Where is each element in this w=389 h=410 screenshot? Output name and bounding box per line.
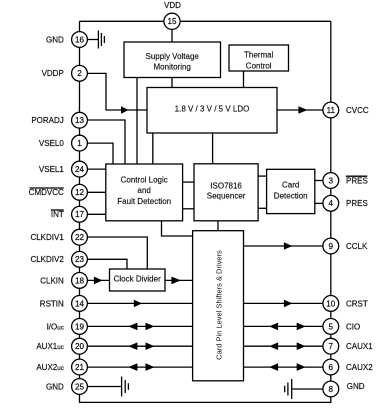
svg-text:GND: GND	[347, 382, 365, 391]
svg-text:9: 9	[329, 242, 334, 251]
svg-text:CVCC: CVCC	[346, 106, 369, 115]
svg-text:24: 24	[75, 165, 85, 174]
svg-text:VSEL0: VSEL0	[39, 139, 64, 148]
svg-text:Sequencer: Sequencer	[207, 192, 246, 201]
svg-text:12: 12	[75, 188, 85, 197]
svg-text:2: 2	[77, 69, 82, 78]
svg-text:PORADJ: PORADJ	[31, 116, 63, 125]
svg-text:VDDP: VDDP	[42, 69, 64, 78]
svg-text:Fault Detection: Fault Detection	[117, 197, 171, 206]
svg-text:CLKDIV1: CLKDIV1	[30, 233, 64, 242]
svg-text:7: 7	[329, 342, 334, 351]
svg-text:PRES: PRES	[346, 176, 368, 185]
svg-text:VSEL1: VSEL1	[39, 165, 64, 174]
svg-text:13: 13	[75, 116, 85, 125]
svg-text:8: 8	[329, 385, 334, 394]
svg-text:CIO: CIO	[346, 322, 360, 331]
svg-text:GND: GND	[46, 35, 64, 44]
svg-text:PRES: PRES	[346, 199, 368, 208]
svg-text:Supply Voltage: Supply Voltage	[146, 52, 200, 61]
svg-text:VDD: VDD	[164, 1, 181, 10]
svg-text:15: 15	[167, 17, 177, 26]
svg-text:Thermal: Thermal	[244, 50, 274, 59]
svg-text:22: 22	[75, 233, 85, 242]
svg-text:Clock Divider: Clock Divider	[114, 275, 161, 284]
svg-text:Monitoring: Monitoring	[154, 63, 191, 72]
svg-text:19: 19	[75, 322, 85, 331]
svg-text:Card: Card	[282, 181, 299, 190]
svg-text:CMDVCC: CMDVCC	[29, 188, 64, 197]
svg-text:ISO7816: ISO7816	[210, 182, 242, 191]
svg-text:RSTIN: RSTIN	[40, 299, 64, 308]
svg-text:CLKIN: CLKIN	[40, 276, 64, 285]
svg-text:GND: GND	[46, 382, 64, 391]
svg-text:Detection: Detection	[274, 192, 308, 201]
svg-text:4: 4	[329, 199, 334, 208]
svg-text:3: 3	[329, 176, 334, 185]
svg-text:CRST: CRST	[346, 299, 368, 308]
svg-text:6: 6	[329, 363, 334, 372]
svg-text:I/Ouc: I/Ouc	[47, 322, 64, 331]
svg-text:18: 18	[75, 276, 85, 285]
svg-text:Control Logic: Control Logic	[121, 175, 168, 184]
svg-text:14: 14	[75, 299, 85, 308]
svg-text:CAUX1: CAUX1	[346, 342, 373, 351]
svg-text:1: 1	[77, 139, 82, 148]
svg-text:1.8 V / 3 V / 5 V LDO: 1.8 V / 3 V / 5 V LDO	[175, 104, 250, 113]
svg-text:INT: INT	[51, 210, 64, 219]
svg-text:10: 10	[326, 299, 336, 308]
svg-text:25: 25	[75, 382, 85, 391]
svg-text:20: 20	[75, 342, 85, 351]
svg-text:CAUX2: CAUX2	[346, 363, 373, 372]
svg-text:17: 17	[75, 210, 85, 219]
svg-text:AUX1uc: AUX1uc	[36, 342, 63, 351]
svg-text:11: 11	[327, 106, 336, 115]
svg-text:and: and	[138, 186, 151, 195]
svg-text:5: 5	[329, 322, 334, 331]
svg-text:Control: Control	[246, 61, 272, 70]
svg-text:Card Pin Level Shifters & Driv: Card Pin Level Shifters & Drivers	[215, 250, 224, 360]
svg-text:23: 23	[75, 255, 85, 264]
svg-text:CCLK: CCLK	[346, 242, 368, 251]
svg-text:21: 21	[75, 363, 85, 372]
svg-text:CLKDIV2: CLKDIV2	[30, 255, 64, 264]
svg-text:16: 16	[75, 35, 85, 44]
svg-text:AUX2uc: AUX2uc	[36, 363, 63, 372]
